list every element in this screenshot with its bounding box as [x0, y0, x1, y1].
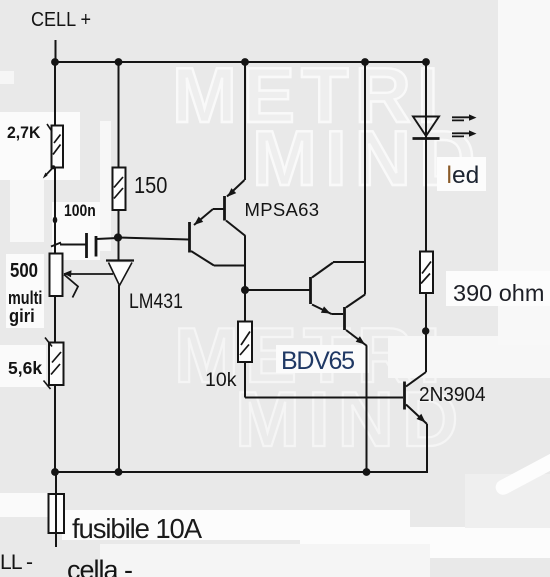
wire LED to 390	[425, 139, 427, 252]
wire left column upper	[54, 62, 56, 125]
watermark row METRI lower	[174, 316, 447, 394]
transistor Q BDV65 darlington	[311, 262, 368, 472]
label 10k	[205, 371, 236, 391]
transistor Q 2N3904	[405, 372, 428, 472]
wire 10k bottom	[244, 362, 246, 398]
junction dot bottom rail 2	[115, 468, 123, 476]
diode LED	[413, 117, 440, 139]
junction dot top rail 3	[241, 58, 249, 66]
label 2N3904	[419, 385, 486, 405]
wire BDV65 base	[245, 289, 310, 291]
junction dot MPSA63 collector node	[241, 286, 249, 294]
wire column2 mid	[118, 210, 120, 260]
wire BDV65 collector vertical	[364, 62, 366, 295]
resistor R 10k	[238, 322, 252, 363]
watermark row MIND top	[252, 119, 483, 197]
wire left column mid	[54, 168, 56, 254]
resistor R 150	[113, 168, 126, 211]
label CELL +	[31, 10, 91, 31]
label giri	[9, 307, 35, 325]
watermark row MIND lower	[235, 380, 466, 458]
resistor R 5,6k	[44, 338, 64, 390]
fuse F1	[49, 472, 65, 547]
wire column2 lower	[118, 285, 120, 472]
wire CELL+ stub	[55, 40, 57, 62]
junction dot LM431 node	[114, 233, 122, 241]
label MPSA63	[245, 201, 320, 220]
junction dot top rail 1	[51, 58, 59, 66]
shunt regulator U LM431	[106, 261, 134, 286]
label 500	[10, 261, 38, 281]
LED light arrows	[452, 114, 477, 136]
potentiometer 500 multigiri	[50, 254, 114, 298]
wire left column lower	[54, 296, 56, 342]
junction dot bottom rail 3	[363, 468, 371, 476]
label 2,7K	[7, 124, 40, 141]
resistor R 390 ohm	[420, 252, 433, 294]
label multi	[8, 289, 42, 307]
label led	[447, 164, 480, 189]
white patches	[0, 71, 14, 84]
junction dot top rail 2	[115, 58, 123, 66]
label BDV65	[281, 349, 354, 374]
junction dot top rail 5	[422, 58, 430, 66]
wire bottom rail	[55, 471, 428, 473]
wire left column bottom	[54, 385, 56, 472]
watermark row METRI top	[172, 56, 445, 134]
label 100n	[64, 202, 96, 219]
wire MPSA63 emitter vertical	[244, 62, 246, 180]
wire LED branch upper	[425, 62, 427, 138]
junction small blob	[53, 217, 58, 224]
capacitor C 100n plates	[87, 233, 97, 258]
wire 390 to collector	[425, 293, 427, 372]
label 150	[134, 174, 167, 197]
transistor Q MPSA63 darlington	[190, 180, 246, 321]
resistor R 2,7K trimmer	[43, 124, 63, 179]
wire base rail to 2N3904	[245, 397, 403, 399]
label LM431	[129, 291, 183, 313]
label cella -	[67, 557, 132, 577]
label 5,6k	[8, 360, 42, 378]
junction dot top rail 4	[361, 58, 369, 66]
capacitor C 100n leads	[51, 238, 118, 247]
junction dot bottom rail 1	[51, 468, 59, 476]
junction dot collector node	[422, 327, 429, 334]
label fusibile 10A	[72, 515, 201, 543]
label 390 ohm	[453, 282, 544, 306]
wire top rail	[54, 61, 426, 63]
label LL -	[0, 552, 32, 573]
wire column2 upper	[118, 62, 120, 167]
wire MPSA63 base	[118, 238, 189, 240]
